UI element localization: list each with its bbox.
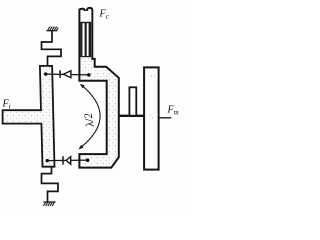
seal bar B1 (tall right rectangle) <box>144 67 159 169</box>
rod slot (right white slit) <box>87 23 89 56</box>
lever (left beam with input bar, section-stippled) <box>3 66 55 167</box>
rod sleeve section (dark block of slot walls) <box>81 22 92 57</box>
ground (top anchor hatch) <box>47 27 59 31</box>
ground (bottom anchor hatch) <box>44 202 56 206</box>
flexure pivot P1 (stop bar + arrowhead on top link) <box>60 70 71 78</box>
node B (pivot dot on frame arm, top) <box>87 73 91 77</box>
wire (output coupling bar, frame to seal bar) <box>119 115 144 117</box>
spring K1 (top zigzag from ground to lever) <box>42 31 62 67</box>
dimension arc lambda/2 (double-headed curved arrow) <box>80 85 101 149</box>
wire (output rod to F_m) <box>159 117 172 119</box>
flexure pivot P2 (stop bar + arrowhead on bottom link) <box>63 156 71 164</box>
svg-text:λ/2: λ/2 <box>82 112 96 129</box>
flexure strip T1 (narrow vertical tab) <box>129 87 136 115</box>
wire (bottom link rod) <box>47 159 87 162</box>
frame M (central mass bracket with vertical rod, stippled) <box>79 8 118 168</box>
node D (pivot dot on frame arm, bottom) <box>86 158 90 162</box>
node A (pivot dot on lever, top) <box>44 72 47 75</box>
rod bore (white interior of vertical rod) <box>81 11 92 58</box>
wire (top link rod) <box>46 73 89 76</box>
node C (pivot dot on lever, bottom) <box>46 159 49 162</box>
rod slot (left white slit) <box>82 23 84 56</box>
spring K2 (bottom zigzag from lever to ground) <box>42 167 59 202</box>
